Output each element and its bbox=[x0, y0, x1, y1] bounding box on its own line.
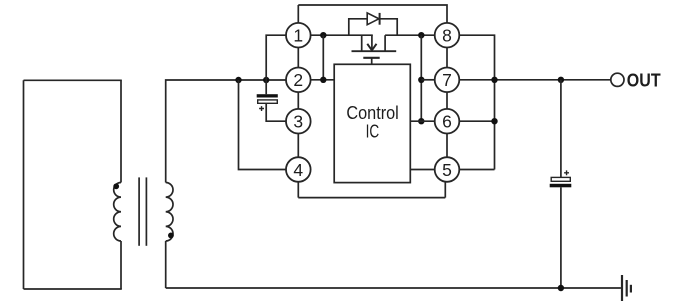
wire pin1 to MOSFET source rail bbox=[311, 34, 373, 36]
wire top rail pin1 to pin8 bbox=[298, 5, 447, 23]
wire pin7 left stub bbox=[421, 79, 434, 81]
svg-text:4: 4 bbox=[293, 160, 303, 180]
capacitor C1 bottom lead to pin 3 bbox=[266, 103, 286, 121]
node junction input line bbox=[235, 77, 241, 83]
wire pin1-pin2 link bbox=[297, 48, 299, 68]
wire pin7-pin6 link bbox=[446, 92, 448, 109]
wire junction down to pin2 wire bbox=[322, 35, 324, 80]
pin 8 bbox=[435, 23, 460, 48]
ground symbol bar 3 bbox=[630, 285, 632, 293]
wire pin6 right stub bbox=[459, 120, 494, 122]
wire Control IC to pin5 bbox=[410, 169, 434, 171]
diode D1 cathode leg bbox=[380, 19, 398, 35]
svg-text:5: 5 bbox=[442, 160, 452, 180]
svg-text:Control: Control bbox=[346, 103, 398, 123]
transformer T1 secondary top lead bbox=[166, 80, 286, 183]
pin 1 bbox=[286, 23, 311, 48]
diode D1 cathode bar bbox=[379, 13, 381, 25]
transistor Q1 drain rail to pin 8 bbox=[385, 34, 435, 36]
node junction capacitor C1 top bbox=[263, 77, 269, 83]
transformer T1 secondary phase dot bbox=[168, 233, 174, 239]
diode D1 triangle bbox=[367, 13, 379, 25]
pin 6 bbox=[435, 109, 460, 134]
capacitor C2 plus sign bbox=[564, 170, 569, 175]
pin 2 bbox=[286, 68, 311, 93]
node junction pin7 right bbox=[491, 77, 497, 83]
transformer T1 core line left bbox=[138, 177, 140, 245]
transistor Q1 channel plate bbox=[352, 50, 397, 52]
ground symbol bar 2 bbox=[626, 280, 628, 297]
svg-text:8: 8 bbox=[442, 26, 452, 46]
svg-text:IC: IC bbox=[366, 121, 380, 141]
transformer T1 secondary winding bbox=[166, 183, 173, 242]
capacitor C2 negative plate bbox=[550, 184, 572, 188]
wire pin8-pin7 link bbox=[446, 48, 448, 68]
wire AC input top bbox=[24, 79, 122, 81]
capacitor C1 top lead bbox=[265, 80, 267, 94]
wire pin 1 left branch bbox=[266, 35, 286, 80]
capacitor C2 top lead bbox=[560, 80, 562, 178]
wire pin8 right branch bbox=[459, 35, 494, 169]
node junction ground rail bbox=[558, 285, 564, 291]
node junction pin1 rail bbox=[320, 32, 326, 38]
capacitor C2 bottom lead bbox=[560, 187, 562, 288]
wire bottom ground rail bbox=[166, 287, 621, 289]
capacitor C1 positive plate bbox=[258, 100, 278, 103]
svg-text:3: 3 bbox=[293, 112, 303, 132]
wire AC input bottom bbox=[24, 288, 122, 290]
transformer T1 primary phase dot bbox=[113, 183, 119, 189]
node OUT terminal bbox=[611, 73, 624, 86]
transistor Q1 body arrow shaft bbox=[371, 35, 373, 49]
capacitor C2 positive plate bbox=[551, 177, 570, 181]
wire pin5 bottom lead bbox=[444, 182, 446, 198]
svg-text:1: 1 bbox=[293, 26, 303, 46]
wire pin4 bottom lead bbox=[297, 182, 299, 198]
transistor Q1 gate plate bbox=[363, 57, 379, 59]
wire pin7 to OUT bbox=[459, 79, 610, 81]
node junction output cap top bbox=[558, 77, 564, 83]
pin 3 bbox=[286, 109, 311, 134]
wire right inner vertical rail bbox=[420, 35, 422, 121]
capacitor C1 negative plate bbox=[257, 94, 278, 97]
wire pin 1 to top rail bbox=[297, 5, 299, 23]
transistor Q1 arrow head bbox=[367, 44, 376, 51]
transformer T1 core line right bbox=[145, 177, 147, 245]
op-amp U1 Control IC box bbox=[334, 64, 410, 182]
svg-text:7: 7 bbox=[442, 70, 452, 90]
transistor Q1 source contact bbox=[361, 35, 363, 51]
wire bottom link pin4 to pin5 bbox=[298, 197, 445, 199]
node junction pin6 row inner bbox=[418, 118, 424, 124]
transformer T1 secondary bottom lead bbox=[165, 241, 167, 288]
transformer T1 primary bottom lead bbox=[120, 241, 122, 289]
diode D1 anode leg bbox=[349, 19, 367, 35]
ground symbol bar 1 bbox=[621, 275, 623, 301]
transistor Q1 drain contact bbox=[384, 35, 386, 51]
transformer T1 primary winding bbox=[114, 183, 121, 242]
wire pin2-pin3 link bbox=[297, 92, 299, 109]
node junction pin7 row inner bbox=[418, 77, 424, 83]
transformer T1 primary top lead bbox=[120, 80, 122, 182]
node junction pin2 wire bbox=[320, 77, 326, 83]
wire left outer vertical to pin 4 bbox=[239, 80, 287, 170]
wire pin3-pin4 link bbox=[297, 134, 299, 158]
capacitor C1 plus sign bbox=[259, 106, 264, 111]
pin 7 bbox=[435, 68, 460, 93]
svg-text:2: 2 bbox=[293, 70, 303, 90]
pin 4 bbox=[286, 157, 311, 182]
svg-text:OUT: OUT bbox=[627, 70, 661, 90]
node junction pin6 right bbox=[491, 118, 497, 124]
wire Control IC to pin6 bbox=[410, 120, 434, 122]
wire AC input left bbox=[23, 80, 25, 289]
pin 5 bbox=[435, 157, 460, 182]
wire pin2 to Control IC bbox=[311, 79, 335, 81]
transistor Q1 gate lead bbox=[371, 58, 373, 65]
svg-text:6: 6 bbox=[442, 112, 452, 132]
wire pin6-pin5 link bbox=[446, 134, 448, 157]
node junction drain rail bbox=[418, 32, 424, 38]
wire pin5 right stub bbox=[459, 169, 494, 171]
